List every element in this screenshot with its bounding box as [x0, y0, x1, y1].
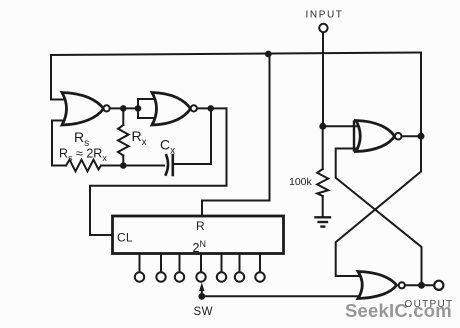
terminal circle Q4: [196, 272, 205, 281]
wire: right rail from top feedback down to gate3 output node: [420, 53, 422, 137]
wire: clock feedback rail down and left to counter CL input: [90, 108, 227, 235]
wire: gate3 input bracket bar: [353, 122, 355, 151]
terminal circle Q6: [235, 272, 244, 281]
ground: [316, 217, 331, 226]
wire: bottom wire left segment to Rs: [52, 165, 66, 167]
wire: gate1 bottom input down to Rs bottom wire: [52, 121, 67, 166]
bubble: gate G3 output: [395, 133, 402, 140]
terminal circle Q2: [156, 272, 165, 281]
wire: bottom wire from Rs through node to capacitor Cx left plate: [101, 165, 164, 167]
wire: left rail down to gate1 top input: [51, 55, 67, 100]
svg-text:R: R: [196, 219, 205, 233]
terminal circle Q3: [175, 272, 184, 281]
bubble: gate G2 output: [191, 105, 197, 111]
wire: gate2 output to top-right corner: [197, 107, 227, 109]
svg-text:SW: SW: [194, 306, 214, 318]
pin stub Q5: [221, 254, 223, 272]
svg-text:Cx: Cx: [160, 137, 175, 157]
junction: gate4 output node: [418, 282, 425, 289]
junction: gate1 output / Rx top: [120, 105, 127, 112]
wire: gate3 top input from INPUT node: [323, 125, 360, 127]
wire: 100k bottom lead to ground: [322, 196, 324, 216]
wire: INPUT terminal stem down across top rail to gate3 input node: [322, 33, 324, 127]
bubble: gate G1 output: [104, 105, 110, 111]
pin stub Q7: [259, 254, 261, 272]
capacitor Cx left plate (curved): [166, 155, 168, 174]
capacitor Cx right plate (straight): [172, 155, 175, 175]
junction: INPUT / gate3 / 100k node: [319, 123, 326, 130]
counter output stubs and terminals: [135, 254, 265, 282]
svg-text:100k: 100k: [289, 176, 313, 188]
NOR gate G4 (latch bottom) body: [358, 272, 397, 299]
wire: gate3 output to right rail node: [402, 135, 421, 137]
wire: 100k resistor top lead: [322, 126, 324, 169]
junction: gate2 output node: [208, 105, 215, 112]
SW selector arrow: [199, 283, 204, 297]
wire: gate3 output down and cross to gate4 top input (cross-coupling): [336, 136, 421, 276]
terminal circle Q5: [217, 272, 226, 281]
resistor Rx (vertical zigzag): [118, 125, 129, 156]
NOR gate G2 (oscillator inverter) body: [152, 93, 191, 126]
pin stub Q6: [239, 254, 241, 272]
junction: Rx bottom node: [120, 162, 127, 169]
pin stub Q3: [179, 254, 181, 272]
wire: gate2 input bracket (both inputs tied): [138, 99, 158, 118]
svg-text:Rs ≈ 2Rx: Rs ≈ 2Rx: [59, 147, 107, 164]
NOR gate G3 (latch top) body: [356, 121, 395, 152]
pin stub Q4: [200, 254, 202, 272]
wire: SW line from counter tap to gate4 bottom input: [202, 295, 364, 297]
wire: gate1 output to gate2 input bracket: [110, 107, 139, 109]
terminal: INPUT: [319, 24, 327, 32]
terminal circle Q1: [135, 272, 144, 281]
pin stub Q1: [139, 254, 141, 272]
svg-text:OUTPUT: OUTPUT: [405, 299, 454, 310]
counter block 2^N: [113, 216, 284, 254]
wire: gate3 bottom input from gate4 output (cross-coupling): [336, 149, 422, 286]
bubble: gate G4 output: [399, 282, 405, 288]
wire: counter R input up and right to top rail node: [202, 55, 270, 216]
svg-text:Rx: Rx: [132, 128, 147, 148]
junction: gate3 output node: [418, 133, 425, 140]
junction: gate2 input bracket: [135, 105, 142, 112]
NOR gate G1 (oscillator) body: [62, 93, 104, 126]
svg-text:CL: CL: [117, 231, 133, 245]
wire: capacitor branch down from gate2 output node: [174, 108, 211, 164]
terminal: OUTPUT: [434, 281, 443, 290]
wire: Rx top lead from gate1 output node: [122, 108, 124, 125]
svg-text:INPUT: INPUT: [306, 10, 344, 21]
wire: Rx bottom lead to bottom wire node: [122, 156, 124, 166]
resistor 100k (vertical zigzag): [317, 169, 328, 196]
resistor Rs (zigzag in bottom wire): [66, 160, 101, 172]
op-amp-style gates: drawn bodies: [62, 93, 397, 299]
wire: top feedback rail from left rail to right rail: [51, 53, 421, 56]
junction: SW tap node: [198, 293, 205, 300]
wire: gate4 output to OUTPUT terminal: [405, 284, 434, 286]
pin stub Q2: [160, 254, 162, 272]
inversion bubbles: [104, 105, 405, 288]
terminal circle Q7: [255, 272, 264, 281]
junction: top rail to counter R: [265, 51, 272, 58]
